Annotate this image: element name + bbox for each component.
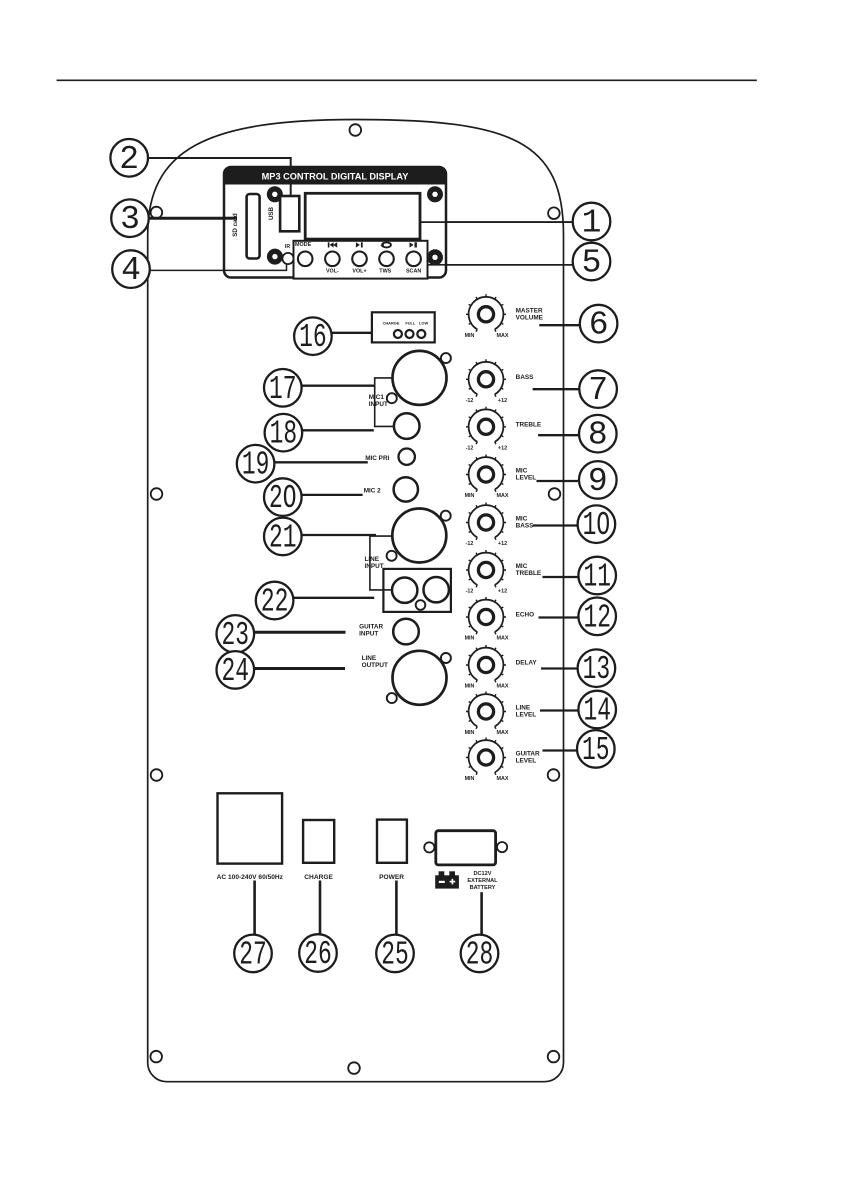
charge switch box	[303, 820, 334, 863]
svg-text:MIN: MIN	[465, 333, 475, 339]
wire leader 27	[253, 881, 256, 935]
callout 5	[573, 243, 611, 282]
buttons box	[294, 241, 428, 279]
wire leader 18	[302, 429, 374, 431]
svg-text:VOL+: VOL+	[352, 268, 366, 274]
svg-text:13: 13	[583, 651, 611, 688]
svg-text:BATTERY: BATTERY	[470, 885, 496, 891]
svg-text:MP3 CONTROL DIGITAL DISPLAY: MP3 CONTROL DIGITAL DISPLAY	[262, 172, 409, 182]
wire leader 1 over board	[421, 221, 573, 223]
wire leader 25	[395, 881, 398, 935]
label LINE OUTPUT	[362, 655, 388, 669]
svg-text:LEVEL: LEVEL	[516, 475, 537, 482]
svg-text:VOLUME: VOLUME	[516, 315, 544, 322]
wire leader 4 segment over board	[223, 264, 287, 270]
callout 10	[578, 505, 616, 544]
svg-text:3: 3	[120, 201, 140, 238]
label MIC LEVEL	[516, 468, 537, 482]
svg-text:OUTPUT: OUTPUT	[362, 662, 388, 669]
svg-text:ECHO: ECHO	[516, 612, 534, 619]
svg-text:26: 26	[304, 936, 332, 973]
callout 20	[264, 478, 302, 517]
svg-text:GUITAR: GUITAR	[359, 623, 383, 630]
RCA right	[424, 577, 449, 602]
charge LED 1	[394, 330, 402, 338]
wire leader 4	[150, 264, 287, 270]
button 1	[298, 251, 313, 266]
svg-text:FULL: FULL	[405, 320, 416, 325]
svg-text:2: 2	[119, 141, 139, 178]
callout 23	[217, 615, 255, 654]
wire leader 17	[302, 385, 375, 387]
callout 9	[579, 461, 617, 500]
label GUITAR LEVEL	[516, 751, 540, 765]
svg-text:19: 19	[242, 447, 270, 484]
svg-text:GUITAR: GUITAR	[516, 751, 540, 758]
screw left middle	[151, 488, 163, 500]
callout 21	[264, 518, 302, 557]
svg-text:-12: -12	[466, 445, 474, 451]
svg-text:TREBLE: TREBLE	[516, 422, 542, 429]
svg-text:11: 11	[583, 559, 611, 596]
svg-text:MIN: MIN	[465, 493, 475, 499]
svg-text:8: 8	[588, 417, 608, 454]
mic pri jack	[399, 449, 415, 465]
USB port	[280, 196, 299, 231]
callout 13	[578, 649, 616, 688]
RCA left	[392, 578, 417, 603]
label LINE LEVEL	[516, 705, 537, 719]
wire leader 9	[537, 480, 580, 482]
knob GUITAR LEVEL	[465, 738, 509, 783]
svg-text:LEVEL: LEVEL	[516, 712, 537, 719]
svg-text:6: 6	[589, 307, 609, 344]
XLR jack LINE INPUT	[387, 509, 451, 563]
label BASS	[516, 374, 534, 381]
svg-text:1: 1	[582, 205, 602, 242]
svg-text:INPUT: INPUT	[369, 401, 388, 408]
wire leader 12	[539, 616, 579, 618]
wire leader 10	[533, 524, 578, 526]
label MIC BASS	[516, 516, 534, 530]
svg-text:MIC 2: MIC 2	[364, 487, 381, 494]
wire leader 21	[302, 534, 376, 536]
svg-text:MAX: MAX	[497, 776, 509, 782]
charge LED 2	[406, 330, 414, 338]
svg-text:12: 12	[583, 599, 611, 636]
wire leader 5 over board	[428, 264, 573, 266]
wire leader 7	[533, 388, 580, 390]
board screw bottom right	[427, 249, 443, 265]
RCA line input box	[383, 569, 451, 612]
svg-text:DC12V: DC12V	[473, 871, 491, 877]
callout 28	[461, 935, 499, 974]
svg-text:17: 17	[269, 371, 297, 408]
svg-text:25: 25	[381, 936, 409, 973]
AC inlet box	[218, 793, 283, 863]
callout 11	[578, 557, 616, 596]
wire leader 24	[254, 667, 345, 670]
callout 17	[264, 369, 302, 408]
svg-text:MAX: MAX	[497, 636, 509, 642]
svg-text:MAX: MAX	[497, 493, 509, 499]
screw right top	[548, 207, 560, 219]
svg-text:LINE: LINE	[362, 655, 377, 662]
wire leader 1	[421, 221, 573, 223]
wire leader 26	[319, 881, 322, 935]
svg-text:SD card: SD card	[232, 213, 239, 237]
svg-text:18: 18	[270, 416, 298, 453]
callout 8	[579, 415, 617, 454]
callout 15	[577, 730, 615, 769]
charge indicator box	[372, 312, 435, 342]
svg-text:MIC PRI: MIC PRI	[365, 455, 389, 462]
svg-text:MODE: MODE	[295, 242, 312, 248]
wire leader 5	[428, 264, 573, 266]
label DELAY	[516, 660, 538, 667]
svg-text:LINE: LINE	[516, 705, 531, 712]
screw bottom right	[548, 1051, 560, 1063]
knob DELAY	[465, 645, 509, 690]
svg-text:9: 9	[588, 463, 608, 500]
screw left top	[151, 207, 163, 219]
wire leader 20	[302, 494, 363, 496]
icon play-pause	[410, 242, 417, 247]
battery connector	[436, 831, 496, 865]
svg-text:INPUT: INPUT	[365, 563, 384, 570]
svg-text:IR: IR	[285, 244, 290, 250]
svg-text:MIC: MIC	[516, 563, 528, 570]
board screw top left	[267, 186, 283, 202]
svg-text:MAX: MAX	[497, 730, 509, 736]
wire leader 3 segment over board	[223, 217, 237, 220]
svg-text:7: 7	[588, 372, 608, 409]
svg-text:MAX: MAX	[497, 333, 509, 339]
svg-text:5: 5	[582, 245, 602, 282]
charge LED 3	[417, 330, 425, 338]
svg-text:+12: +12	[498, 445, 507, 451]
svg-text:+12: +12	[498, 398, 507, 404]
label MASTER VOLUME	[516, 308, 544, 322]
callout 22	[256, 582, 294, 621]
svg-text:MASTER: MASTER	[516, 308, 543, 315]
knob MASTER VOLUME	[465, 294, 509, 339]
wire leader 16	[332, 332, 373, 334]
knob MIC TREBLE	[466, 550, 507, 595]
wire leader 6	[539, 324, 580, 326]
callout 24	[217, 651, 255, 690]
svg-text:VOL-: VOL-	[326, 268, 339, 274]
button 3	[352, 251, 367, 266]
wire leader 17 and mic1 bracket	[375, 378, 394, 427]
knob MIC BASS	[466, 503, 507, 548]
wire leader 23	[254, 631, 345, 634]
svg-text:LOW: LOW	[419, 320, 428, 325]
callout 18	[265, 414, 303, 453]
svg-text:MIN: MIN	[465, 730, 475, 736]
svg-text:DELAY: DELAY	[516, 660, 538, 667]
label ECHO	[516, 612, 534, 619]
knob ECHO	[465, 597, 509, 642]
label MIC TREBLE	[516, 563, 542, 577]
battery icon	[435, 871, 459, 888]
wire leader 11	[543, 576, 579, 578]
svg-text:4: 4	[121, 252, 141, 289]
svg-text:22: 22	[261, 584, 289, 621]
icon loop	[380, 242, 391, 247]
SD card slot	[247, 194, 260, 259]
wire leader 28	[480, 892, 483, 934]
button 5	[406, 251, 421, 266]
callout 12	[578, 598, 616, 637]
svg-text:+12: +12	[498, 589, 507, 595]
guitar input jack	[393, 619, 419, 645]
callout 7	[579, 370, 617, 409]
svg-text:CHARGE: CHARGE	[304, 874, 333, 881]
screw bottom left	[150, 1051, 162, 1063]
label MIC1 INPUT	[369, 394, 388, 408]
screw right middle	[549, 488, 561, 500]
label DC12V EXTERNAL BATTERY	[467, 871, 498, 891]
svg-text:24: 24	[222, 653, 250, 690]
svg-text:SCAN: SCAN	[406, 268, 421, 274]
svg-text:USB: USB	[268, 206, 275, 220]
knob TREBLE	[466, 407, 507, 452]
icon prev	[328, 242, 337, 247]
svg-text:MIN: MIN	[465, 776, 475, 782]
svg-text:AC 100-240V 60/50Hz: AC 100-240V 60/50Hz	[217, 874, 284, 881]
screw right lower	[548, 769, 560, 781]
svg-text:27: 27	[239, 936, 267, 973]
callout 4	[112, 250, 150, 289]
svg-text:-12: -12	[466, 589, 474, 595]
speaker panel outline	[148, 120, 564, 1082]
svg-text:LEVEL: LEVEL	[516, 758, 537, 765]
IR sensor	[282, 253, 293, 264]
wire leader 8	[538, 434, 579, 436]
svg-text:21: 21	[269, 519, 297, 556]
svg-text:-12: -12	[466, 398, 474, 404]
svg-text:CHARGE: CHARGE	[383, 320, 400, 325]
label LINE INPUT	[365, 556, 384, 570]
wire leader 14	[540, 709, 579, 711]
svg-text:28: 28	[466, 936, 494, 973]
svg-text:LINE: LINE	[365, 556, 380, 563]
svg-text:16: 16	[299, 319, 327, 356]
svg-text:EXTERNAL: EXTERNAL	[467, 878, 498, 884]
callout 27	[234, 935, 272, 974]
wire leader 2	[148, 158, 291, 196]
svg-text:2O: 2O	[269, 480, 297, 517]
svg-text:TWS: TWS	[379, 268, 391, 274]
display window	[305, 193, 420, 239]
svg-text:MIC: MIC	[516, 516, 528, 523]
button 2	[325, 251, 340, 266]
svg-text:MIC1: MIC1	[369, 394, 385, 401]
XLR jack LINE OUTPUT	[387, 651, 451, 705]
wire leader 19	[274, 461, 367, 463]
knob BASS	[466, 359, 507, 404]
svg-text:MIN: MIN	[465, 636, 475, 642]
label TREBLE	[516, 422, 542, 429]
button 4	[379, 251, 394, 266]
knob MIC LEVEL	[465, 455, 509, 500]
top horizontal rule	[57, 79, 757, 81]
label GUITAR INPUT	[359, 623, 383, 637]
icon next	[356, 242, 363, 247]
svg-text:POWER: POWER	[379, 874, 404, 881]
mic2 jack	[394, 477, 418, 501]
charge indicator labels	[383, 320, 429, 325]
wire leader 15	[543, 749, 578, 751]
wire leader 21 and line-input bracket	[370, 536, 393, 590]
callout 3	[111, 199, 149, 238]
MP3 control board outline	[224, 167, 446, 278]
svg-text:BASS: BASS	[516, 374, 534, 381]
svg-text:TREBLE: TREBLE	[516, 570, 542, 577]
power switch box	[377, 820, 407, 863]
XLR jack MIC1 INPUT	[387, 351, 451, 405]
callout 14	[578, 691, 616, 730]
screw top center	[350, 124, 362, 136]
wire leader 22	[293, 597, 374, 599]
svg-text:MIN: MIN	[465, 684, 475, 690]
screw bottom center	[348, 1062, 360, 1074]
knob LINE LEVEL	[465, 692, 509, 737]
callout 19	[237, 445, 275, 484]
mic1 quarter-inch jack	[394, 413, 420, 439]
wire leader 3	[149, 217, 238, 220]
board screw bottom left	[267, 249, 283, 265]
svg-text:14: 14	[583, 693, 611, 730]
svg-text:23: 23	[222, 617, 250, 654]
callout 25	[376, 935, 414, 974]
callout 6	[580, 305, 618, 344]
callout 2	[110, 139, 148, 178]
callout 16	[294, 317, 332, 356]
svg-text:INPUT: INPUT	[359, 631, 378, 638]
svg-text:MAX: MAX	[497, 684, 509, 690]
RCA small hole	[416, 600, 426, 610]
svg-text:1O: 1O	[583, 507, 611, 544]
wire leader 13	[541, 667, 578, 669]
callout 1	[573, 203, 611, 242]
svg-text:-12: -12	[466, 541, 474, 547]
battery connector left ear	[424, 842, 434, 852]
callout 26	[299, 934, 337, 973]
svg-text:15: 15	[582, 732, 610, 769]
wire into RCA box	[383, 589, 392, 591]
wire leader 2 segment over board	[290, 184, 292, 196]
MP3 board header bar	[224, 167, 446, 185]
svg-text:MIC: MIC	[516, 468, 528, 475]
svg-text:+12: +12	[498, 541, 507, 547]
screw left lower	[151, 769, 163, 781]
svg-text:BASS: BASS	[516, 523, 534, 530]
battery connector right ear	[497, 842, 507, 852]
board screw top right	[427, 186, 443, 202]
